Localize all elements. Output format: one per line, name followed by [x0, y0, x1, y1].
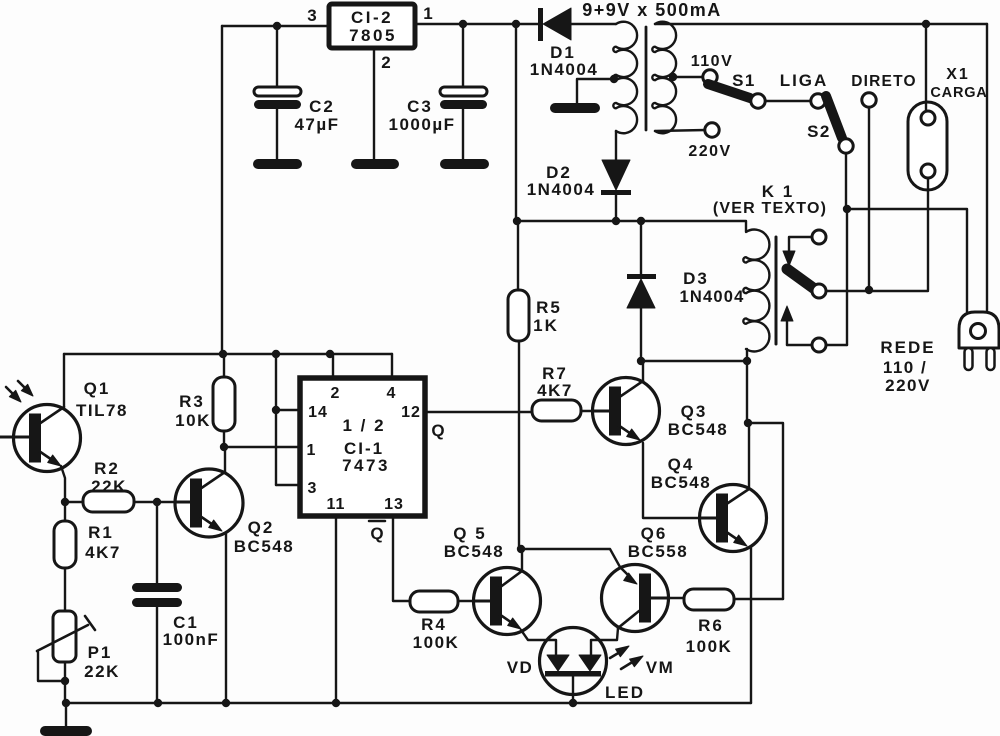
svg-text:R5: R5 — [536, 298, 562, 317]
svg-text:1N4004: 1N4004 — [680, 288, 745, 306]
svg-text:3: 3 — [307, 6, 316, 25]
phototransistor Q1 TIL78 — [0, 379, 128, 472]
svg-text:220V: 220V — [688, 143, 731, 160]
relay contact NO — [781, 306, 847, 352]
wire Q1 emitter — [61, 466, 65, 502]
wire +V drop to relay rail — [515, 24, 517, 221]
relay lever — [787, 269, 816, 290]
svg-text:DIRETO: DIRETO — [851, 73, 916, 90]
svg-text:11: 11 — [327, 496, 346, 513]
svg-text:VM: VM — [646, 658, 675, 677]
ground 7805 pin2 — [351, 159, 399, 169]
wire S1 to S2 — [765, 100, 811, 102]
svg-text:13: 13 — [384, 496, 404, 513]
node X1 top junction — [922, 20, 930, 28]
label K1 — [713, 182, 827, 217]
node R1 top — [61, 498, 69, 506]
wire right mains edge — [986, 24, 988, 312]
wire Q2 emitter to ground — [225, 533, 227, 703]
transistor Q5 BC548 — [444, 524, 541, 635]
relay K1 coil — [517, 221, 769, 361]
wire ground rail — [62, 699, 751, 707]
svg-text:Q6: Q6 — [641, 524, 668, 543]
diode D1 1N4004 — [530, 8, 616, 79]
svg-text:R1: R1 — [88, 523, 114, 542]
resistor R4 100K — [410, 591, 474, 652]
svg-text:110 /: 110 / — [883, 358, 927, 377]
wire pin 13 to R4 — [393, 516, 410, 601]
wire Q5 collector riser — [521, 549, 523, 571]
svg-text:14: 14 — [308, 404, 328, 421]
wire Q3 collector up — [642, 361, 644, 381]
node pin14 junction — [272, 406, 280, 414]
wire Q6 collector to LED — [591, 628, 618, 655]
svg-text:TIL78: TIL78 — [76, 401, 128, 420]
svg-text:Q3: Q3 — [681, 402, 708, 421]
svg-text:C3: C3 — [407, 97, 433, 116]
svg-text:D3: D3 — [683, 269, 709, 288]
svg-text:R2: R2 — [94, 459, 120, 478]
svg-text:Q: Q — [370, 524, 383, 543]
svg-text:BC548: BC548 — [444, 542, 504, 561]
node C3 top junction — [459, 20, 467, 28]
svg-text:BC548: BC548 — [668, 420, 728, 439]
relay contact NC — [783, 230, 826, 266]
wire Q output to R7 — [425, 411, 532, 413]
pin 2 label — [381, 53, 390, 72]
svg-text:3: 3 — [308, 480, 317, 497]
svg-text:LED: LED — [605, 683, 645, 702]
svg-text:220V: 220V — [885, 376, 931, 395]
svg-text:BC558: BC558 — [628, 542, 688, 561]
socket X1 — [908, 24, 947, 290]
resistor R1 4K7 — [54, 502, 121, 611]
ground C2 — [253, 159, 302, 169]
wire DIRETO drop — [865, 107, 873, 294]
wire Q3 emitter to Q4 base — [643, 443, 700, 518]
pin 1 label — [423, 4, 432, 23]
node C2 top junction — [273, 22, 281, 30]
wire 7805 pin2 ground lead — [373, 48, 375, 159]
svg-text:Q4: Q4 — [668, 455, 695, 474]
svg-text:R4: R4 — [421, 615, 447, 634]
svg-text:1K: 1K — [533, 316, 559, 335]
svg-text:K 1: K 1 — [762, 182, 794, 201]
svg-text:CI-2: CI-2 — [351, 8, 393, 27]
switch S1 — [708, 71, 765, 108]
svg-text:1 / 2: 1 / 2 — [342, 416, 385, 435]
svg-text:1: 1 — [307, 442, 316, 459]
svg-text:P1: P1 — [88, 643, 113, 662]
transformer T1 primary winding — [652, 22, 676, 134]
terminal 110V — [691, 53, 733, 84]
resistor R6 100K — [668, 589, 783, 656]
svg-text:R3: R3 — [179, 392, 205, 411]
svg-text:7473: 7473 — [342, 456, 390, 475]
node D1 rail junction — [512, 20, 520, 28]
wire pin 11 to ground — [335, 516, 337, 703]
plug REDE 110/220V — [959, 312, 999, 370]
wire Q4 collector riser — [748, 423, 750, 490]
light arrows — [6, 381, 33, 402]
ground center tap bar — [550, 103, 600, 113]
svg-text:22K: 22K — [84, 662, 120, 681]
svg-text:1N4004: 1N4004 — [530, 60, 599, 79]
terminal DIRETO — [851, 73, 916, 107]
svg-text:9+9V x 500mA: 9+9V x 500mA — [582, 0, 722, 20]
wire pin 4 corner — [391, 354, 393, 378]
wire Q2 collector — [224, 447, 226, 472]
capacitor C2 — [254, 26, 340, 160]
svg-text:X1: X1 — [946, 66, 970, 83]
svg-text:100nF: 100nF — [163, 630, 220, 649]
resistor R5 1K — [508, 221, 562, 549]
wire Vcc logic rail — [64, 350, 392, 358]
svg-text:REDE: REDE — [880, 338, 935, 357]
switch S2 — [807, 94, 853, 153]
svg-text:S1: S1 — [732, 71, 756, 90]
wire Q4 emitter to ground rail — [750, 548, 752, 703]
svg-text:R6: R6 — [698, 616, 724, 635]
label VD — [507, 658, 534, 677]
label LIGA — [780, 71, 829, 90]
wire to pin 3 — [276, 484, 300, 486]
transistor Q4 BC548 — [651, 455, 767, 552]
capacitor C1 100nF — [132, 502, 219, 703]
svg-text:7805: 7805 — [349, 26, 397, 45]
node C1 top junction — [153, 498, 161, 506]
svg-text:47µF: 47µF — [294, 115, 339, 134]
wire mains return rail — [847, 209, 967, 312]
ground C3 — [440, 159, 489, 169]
potentiometer P1 22K — [37, 611, 120, 703]
svg-text:C2: C2 — [309, 97, 335, 116]
svg-text:1: 1 — [423, 4, 432, 23]
wire secondary center tap — [577, 75, 618, 104]
svg-text:4K7: 4K7 — [85, 543, 121, 562]
wire 110V tap — [669, 73, 704, 81]
svg-text:1N4004: 1N4004 — [527, 180, 596, 199]
resistor R2 22K — [65, 459, 175, 512]
diode D2 1N4004 — [527, 131, 631, 221]
svg-text:BC548: BC548 — [234, 537, 294, 556]
label REDE 110 220V — [880, 338, 935, 395]
wire top-left rail — [222, 26, 329, 354]
transformer core — [645, 27, 648, 130]
wire top mains rail — [655, 23, 987, 25]
terminal 220V — [655, 123, 732, 160]
svg-text:100K: 100K — [413, 633, 460, 652]
wire clock pins riser — [275, 354, 277, 485]
svg-text:10K: 10K — [175, 411, 211, 430]
label X1 CARGA — [930, 66, 987, 101]
wire Q5 emitter to LED — [521, 630, 556, 655]
pin 3 label — [307, 6, 316, 25]
relay core — [775, 237, 778, 344]
svg-text:VD: VD — [507, 658, 534, 677]
wire Q1 collector riser — [63, 354, 65, 407]
svg-text:4K7: 4K7 — [537, 381, 573, 400]
wire R3 to pin1 — [224, 446, 300, 448]
flip-flop CI-1 7473 — [300, 378, 425, 516]
wire relay rail corner down — [744, 361, 783, 599]
svg-text:110V: 110V — [691, 53, 733, 70]
wire junction to Q6 emitter — [521, 549, 620, 567]
svg-text:BC548: BC548 — [651, 473, 711, 492]
svg-text:2: 2 — [331, 385, 340, 402]
svg-text:CARGA: CARGA — [930, 85, 987, 101]
label transformer rating — [582, 0, 722, 20]
wire S2 down to mains return — [843, 153, 851, 213]
svg-text:(VER TEXTO): (VER TEXTO) — [713, 200, 827, 217]
ground main — [40, 703, 92, 736]
label Q-bar output — [369, 521, 385, 543]
wire to pin 14 — [276, 409, 300, 411]
label Q output — [431, 421, 444, 440]
wire relay common to X1 — [826, 290, 928, 292]
transistor Q2 BC548 — [175, 469, 294, 556]
svg-text:4: 4 — [387, 385, 396, 402]
svg-text:Q 5: Q 5 — [453, 524, 486, 543]
wire S2 branch to NO contact — [846, 209, 848, 345]
svg-text:2: 2 — [381, 53, 390, 72]
svg-text:S2: S2 — [807, 122, 831, 141]
svg-text:Q1: Q1 — [84, 379, 111, 398]
svg-text:22K: 22K — [91, 477, 127, 496]
diode D3 1N4004 — [627, 221, 745, 361]
transformer T1 secondary winding — [613, 22, 637, 134]
svg-text:1000µF: 1000µF — [389, 115, 456, 134]
svg-text:Q: Q — [431, 421, 444, 440]
resistor R3 10K — [175, 354, 235, 447]
wire pin 2 — [332, 354, 334, 378]
wire relay supply rail — [513, 217, 645, 225]
svg-text:Q2: Q2 — [248, 518, 275, 537]
svg-text:12: 12 — [401, 404, 421, 421]
svg-text:100K: 100K — [686, 637, 733, 656]
resistor R7 4K7 — [532, 364, 593, 421]
svg-text:LIGA: LIGA — [780, 71, 829, 90]
regulator CI-2 7805 — [329, 4, 415, 48]
label LED — [605, 683, 645, 702]
wire Q3 collector rail — [637, 357, 751, 365]
transistor Q6 BC558 — [602, 524, 689, 632]
relay pivot — [812, 284, 826, 298]
LED dual VD VM — [540, 628, 607, 704]
capacitor C3 — [389, 24, 488, 160]
node Q5-Q6 supply junction — [517, 545, 525, 553]
node R3 bottom junction — [220, 443, 228, 451]
transistor Q3 BC548 — [593, 378, 729, 445]
wire pin1 to D1 — [415, 23, 539, 25]
label VM arrows — [610, 646, 674, 677]
